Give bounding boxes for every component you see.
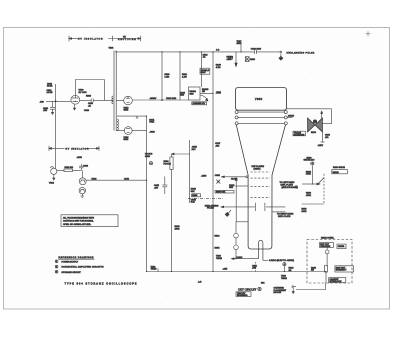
svg-text:6.3VAC (ELEV TO -3150V): 6.3VAC (ELEV TO -3150V) bbox=[269, 259, 294, 262]
rectifier V852 bbox=[124, 96, 133, 105]
svg-text:-8600V: -8600V bbox=[150, 98, 157, 100]
wire V800 plate to T820 bbox=[74, 80, 76, 96]
CRT funnel bbox=[236, 125, 285, 249]
resistor in rear panel bbox=[324, 266, 327, 273]
neon chain upper vertical bbox=[235, 178, 237, 222]
svg-text:-125V: -125V bbox=[318, 145, 324, 147]
svg-text:REAR PANEL: REAR PANEL bbox=[321, 237, 335, 240]
bezel box in rear panel bbox=[337, 244, 346, 249]
resistor R822 bbox=[57, 169, 64, 171]
bus branch with trimmer bbox=[240, 41, 242, 52]
svg-text:R826: R826 bbox=[92, 178, 98, 180]
svg-text:ROTATION: ROTATION bbox=[294, 133, 305, 136]
geom adj box bbox=[332, 169, 348, 173]
registration mark bbox=[366, 31, 371, 36]
ext intensity box bbox=[335, 266, 354, 272]
svg-text:INTERLOCK: INTERLOCK bbox=[330, 281, 343, 283]
deflection plate wire bbox=[221, 206, 255, 208]
dimension line HV insulator (top) bbox=[69, 36, 141, 41]
svg-text:REFERENCE DRAWINGS: REFERENCE DRAWINGS bbox=[59, 256, 95, 259]
svg-text:UNBLANKING PULSE: UNBLANKING PULSE bbox=[287, 51, 315, 54]
svg-text:MO-968: MO-968 bbox=[274, 292, 282, 294]
CRT face bbox=[236, 88, 287, 111]
svg-text:(VERT): (VERT) bbox=[254, 168, 261, 170]
svg-text:B895: B895 bbox=[215, 247, 221, 249]
capacitor C822 below junction bbox=[52, 101, 54, 107]
thyratron V822 bbox=[51, 168, 57, 174]
svg-text:HV INSULATOR: HV INSULATOR bbox=[78, 38, 103, 41]
transformer T820 core bbox=[114, 51, 116, 131]
svg-text:HORIZONTAL AMPLIFIER CIRCUITS: HORIZONTAL AMPLIFIER CIRCUITS bbox=[62, 266, 105, 269]
mesh line 3 bbox=[238, 122, 285, 124]
wire into neck cathode bbox=[236, 185, 248, 187]
HV wire V852 to intensity box bbox=[132, 99, 188, 101]
mesh line 2 bbox=[238, 116, 285, 118]
capacitor C843 bbox=[92, 100, 93, 102]
wire into neck grid bbox=[222, 176, 246, 178]
svg-text:1.5-7: 1.5-7 bbox=[228, 59, 234, 61]
svg-text:NUMBERS: NUMBERS bbox=[237, 295, 248, 297]
unblank diamond bbox=[225, 212, 229, 216]
long thin label box bbox=[215, 190, 234, 193]
svg-text:450K: 450K bbox=[175, 228, 180, 230]
transistor Q824 bbox=[79, 187, 85, 193]
focus pot wire bbox=[172, 153, 190, 155]
bus drop resistor R830 bbox=[161, 52, 163, 100]
wire V800 grid vertical down to thyratron bbox=[55, 101, 57, 168]
svg-text:V822: V822 bbox=[49, 183, 55, 185]
danger label bbox=[192, 102, 207, 105]
resistor R869 bbox=[322, 132, 324, 142]
rectifier V862 bbox=[124, 127, 132, 135]
bus capacitor C832 bbox=[254, 50, 256, 54]
svg-text:C853: C853 bbox=[216, 92, 222, 94]
svg-text:PULSE: PULSE bbox=[207, 208, 214, 210]
svg-text:R822 1M: R822 1M bbox=[65, 167, 74, 169]
rear panel dashed box bbox=[307, 240, 352, 284]
main vertical rail x213 bbox=[212, 52, 214, 272]
dimension line HV insulator (mid-left) bbox=[49, 146, 99, 151]
circuit numbers box bbox=[236, 292, 251, 297]
svg-text:HV INSULATOR: HV INSULATOR bbox=[66, 147, 90, 150]
svg-text:MESH: MESH bbox=[288, 115, 295, 117]
svg-text:POWER SUPPLY: POWER SUPPLY bbox=[62, 261, 79, 263]
bus drop resistor R831 bbox=[179, 52, 181, 100]
svg-text:R832: R832 bbox=[250, 59, 256, 61]
svg-text:500V: 500V bbox=[201, 72, 206, 74]
T820 winding right lower bbox=[117, 119, 118, 130]
svg-text:C840: C840 bbox=[84, 110, 90, 112]
svg-text:18M: 18M bbox=[180, 95, 184, 97]
focus resistor bbox=[171, 154, 173, 157]
heater wire right bbox=[263, 259, 268, 261]
svg-text:18M: 18M bbox=[190, 93, 194, 95]
vertical feedback wire bbox=[55, 84, 57, 101]
-125V tick bbox=[321, 141, 325, 143]
intensity pot arrow bbox=[200, 95, 208, 101]
svg-text:OPER. NO SIGNAL APPLIED.: OPER. NO SIGNAL APPLIED. bbox=[63, 223, 92, 226]
svg-text:DEFL PLATE: DEFL PLATE bbox=[278, 215, 291, 218]
svg-text:TYPE 564 STORAGE OSCILLOSCOPE: TYPE 564 STORAGE OSCILLOSCOPE bbox=[65, 282, 138, 285]
svg-text:4.5-25: 4.5-25 bbox=[47, 92, 54, 94]
filament dash through bus bbox=[255, 262, 257, 272]
svg-text:T820: T820 bbox=[109, 47, 115, 49]
svg-text:GEOM ADJ: GEOM ADJ bbox=[304, 159, 315, 162]
svg-text:56K: 56K bbox=[229, 187, 233, 189]
notes box bbox=[61, 215, 118, 227]
wire V800 plate side with capacitor bbox=[80, 99, 91, 101]
svg-text:HV OSC: HV OSC bbox=[79, 92, 87, 94]
top bus bbox=[115, 51, 280, 53]
grid wire left of V800 bbox=[46, 100, 71, 102]
bottom ground return wire bbox=[292, 286, 294, 288]
svg-text:-1850: -1850 bbox=[77, 157, 83, 159]
wire -1850 feed to right bbox=[86, 179, 146, 181]
heater wire bbox=[232, 258, 259, 260]
CRT right wire to graticule bbox=[287, 108, 332, 110]
wire T820 to V852 bbox=[116, 100, 124, 102]
svg-text:700A: 700A bbox=[149, 121, 154, 124]
circle-plus on bus bbox=[283, 263, 286, 266]
svg-text:100K: 100K bbox=[302, 211, 307, 213]
svg-text:C858: C858 bbox=[215, 175, 221, 177]
svg-text:R854: R854 bbox=[145, 156, 151, 158]
jack circle bbox=[325, 250, 329, 254]
focus front panel symbol bbox=[149, 162, 152, 165]
svg-text:B869: B869 bbox=[311, 132, 317, 134]
wire T820 to V862 bbox=[116, 130, 124, 132]
mesh line 1 bbox=[238, 111, 285, 113]
svg-text:1.2M: 1.2M bbox=[182, 76, 187, 78]
wire top winding to bend bbox=[117, 115, 147, 117]
svg-text:BEZEL: BEZEL bbox=[338, 246, 345, 248]
trimmer cap C831 bbox=[245, 57, 249, 62]
V800 cathode stub bbox=[74, 104, 76, 108]
svg-text:C806 1000: C806 1000 bbox=[166, 98, 177, 100]
svg-text:ADJ: ADJ bbox=[192, 148, 196, 151]
ground tick on wire bbox=[136, 116, 138, 118]
cabinet interlock box bbox=[329, 278, 346, 283]
svg-text:10-80: 10-80 bbox=[47, 86, 53, 88]
svg-text:R860 56K: R860 56K bbox=[216, 192, 226, 194]
arrow above bowtie bbox=[321, 113, 323, 119]
capacitor C822b bbox=[80, 164, 82, 166]
geometry control symbol bbox=[311, 162, 314, 165]
wire thyratron top to circuit bbox=[80, 169, 81, 171]
svg-text:1M: 1M bbox=[289, 270, 292, 272]
ground below transistors bbox=[81, 194, 83, 196]
svg-text:-4600: -4600 bbox=[149, 131, 155, 133]
svg-text:R859: R859 bbox=[192, 195, 198, 197]
long vertical -3150 rail bbox=[146, 116, 148, 271]
geometry wires bbox=[311, 166, 313, 184]
panel symbol bbox=[216, 180, 220, 184]
wire V862 to rail bbox=[132, 130, 146, 132]
svg-text:RECTIFIER: RECTIFIER bbox=[118, 39, 137, 41]
svg-text:B894: B894 bbox=[215, 236, 221, 238]
neon B895 bbox=[234, 245, 239, 250]
intensity control box bbox=[189, 87, 201, 100]
wire box to main vertical bbox=[200, 92, 213, 94]
neck cathode wire bbox=[236, 221, 248, 223]
svg-text:TERM: TERM bbox=[281, 278, 287, 280]
capacitor C845 bbox=[164, 177, 166, 185]
svg-text:470K: 470K bbox=[306, 195, 311, 197]
oscillator tube V800 bbox=[71, 95, 80, 104]
svg-text:56K: 56K bbox=[191, 191, 195, 193]
svg-text:TERM: TERM bbox=[216, 258, 222, 260]
svg-text:C824: C824 bbox=[83, 166, 89, 168]
svg-text:1.2M: 1.2M bbox=[165, 76, 170, 78]
transistor Q822 bbox=[79, 178, 86, 185]
svg-text:C842: C842 bbox=[124, 178, 130, 180]
svg-text:6.3AC: 6.3AC bbox=[237, 256, 243, 259]
bus drop to intensity box with C836 bbox=[201, 52, 203, 87]
svg-text:4.7M: 4.7M bbox=[216, 67, 221, 69]
unblanking pulse connector bbox=[280, 51, 282, 53]
svg-text:DANGER HV: DANGER HV bbox=[193, 102, 206, 105]
svg-text:ALL VOLTAGE READINGS WITH: ALL VOLTAGE READINGS WITH bbox=[63, 216, 95, 219]
svg-text:CATHODE: CATHODE bbox=[320, 245, 331, 248]
filament heater bbox=[259, 240, 263, 260]
svg-text:R8966: R8966 bbox=[333, 172, 340, 174]
T820 primary winding bbox=[112, 96, 113, 104]
svg-text:CRT CIRCUIT: CRT CIRCUIT bbox=[238, 287, 257, 291]
svg-text:C832 1000: C832 1000 bbox=[251, 48, 262, 50]
deflection plates bbox=[255, 203, 257, 211]
svg-text:TERM: TERM bbox=[151, 269, 157, 271]
neon B894 bbox=[234, 233, 239, 238]
ext crt cathode box bbox=[319, 243, 333, 248]
bottom bus bbox=[147, 271, 326, 273]
trace rotation box bbox=[293, 131, 306, 136]
dashed grid structure bbox=[251, 172, 271, 197]
section divider dash-dot bbox=[188, 197, 223, 199]
lower plate wire bbox=[272, 211, 285, 213]
svg-text:V959: V959 bbox=[255, 98, 263, 101]
svg-text:R866 GEOM: R866 GEOM bbox=[333, 167, 345, 169]
svg-text:2M: 2M bbox=[202, 91, 205, 93]
neon chain vertical bbox=[235, 222, 237, 259]
svg-text:STORAGE CIRCUIT: STORAGE CIRCUIT bbox=[62, 271, 82, 274]
svg-text:FOCUS: FOCUS bbox=[164, 163, 172, 165]
svg-text:470K: 470K bbox=[306, 174, 311, 176]
svg-text:CONTROLS SET FOR NORMAL: CONTROLS SET FOR NORMAL bbox=[63, 220, 94, 223]
focus rail x189.6 bbox=[189, 140, 191, 203]
svg-text:-1850: -1850 bbox=[201, 176, 207, 178]
graticule lamp bowtie bbox=[308, 118, 323, 132]
svg-text:R828: R828 bbox=[86, 96, 92, 98]
svg-text:INTENSITY: INTENSITY bbox=[336, 270, 347, 272]
